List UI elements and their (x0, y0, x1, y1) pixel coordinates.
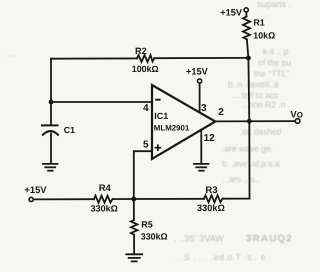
terminal +15V (bottom left) (29, 197, 33, 201)
svg-text:12: 12 (204, 133, 216, 144)
svg-text:MLM2901: MLM2901 (154, 124, 190, 133)
svg-text:2: 2 (218, 107, 224, 118)
svg-text:····: ···· (6, 51, 17, 60)
wire R2 right to junction (154, 57, 248, 59)
op-amp IC1 triangle (152, 85, 215, 159)
svg-text:k 4 .. p: k 4 .. p (263, 47, 289, 57)
svg-text:3RAUQ2: 3RAUQ2 (246, 234, 293, 245)
svg-text:R1: R1 (253, 17, 264, 27)
wire pin4 input from node A to op-amp (51, 101, 152, 103)
svg-text:10kΩ: 10kΩ (253, 30, 275, 40)
resistor R4 (94, 196, 113, 203)
svg-text:R4: R4 (99, 183, 112, 194)
wire R1 bottom through junctions down to R3 line (247, 39, 250, 198)
svg-text:330kΩ: 330kΩ (197, 203, 225, 213)
terminal Vo (295, 119, 300, 124)
svg-text:+15V: +15V (220, 7, 243, 17)
wire R2 top horizontal from left corner to R1 branch (51, 57, 137, 59)
svg-text:3: 3 (201, 103, 207, 114)
svg-text:R5: R5 (141, 220, 153, 230)
wire left vertical (R2 corner down to C1) (50, 59, 52, 125)
resistor R5 branch wire (133, 199, 135, 220)
ground (below C1) (43, 164, 58, 171)
svg-text:supans .: supans . (257, 0, 291, 9)
resistor R1 (243, 17, 250, 40)
resistor R3 (204, 195, 223, 202)
svg-text:. .ars .. s..: . .ars .. s.. (222, 174, 259, 184)
resistor R2 (137, 55, 154, 62)
svg-text:+15V: +15V (24, 184, 47, 195)
wire bottom rail left (33, 198, 94, 200)
svg-text:4: 4 (143, 103, 149, 114)
svg-text:.are wave ge.: .are wave ge. (222, 144, 273, 154)
wire R5 to ground (133, 235, 135, 254)
svg-text:IC1: IC1 (154, 111, 168, 121)
junction node: output/R3 branch (247, 119, 252, 124)
terminal +15V (top right) (244, 8, 248, 12)
op-amp plus sign (155, 144, 162, 151)
junction node: R2/R1 (246, 56, 251, 61)
capacitor C1 (42, 125, 58, 163)
wire output pin2 to Vo (215, 120, 295, 122)
wire pin12 V- down to ground (200, 130, 202, 164)
wire from +15V terminal to R1 (245, 12, 247, 16)
svg-text:5: 5 (143, 139, 149, 150)
svg-text:the "TTL": the "TTL" (254, 69, 289, 79)
terminal +15V (pin3) (198, 79, 202, 83)
svg-text:R3: R3 (205, 185, 217, 196)
svg-text:b..n .dentifi..ti: b..n .dentifi..ti (228, 80, 279, 90)
resistor R5 (131, 220, 138, 235)
wire pin3 V+ (199, 83, 201, 112)
svg-text:. ..3S' 3VAW: . ..3S' 3VAW (174, 234, 224, 244)
svg-text:R2: R2 (135, 46, 147, 56)
svg-text:.os dashed: .os dashed (240, 127, 282, 137)
svg-text:....ted to acc: ....ted to acc (232, 90, 279, 100)
junction node A: pin4/C1 (49, 100, 54, 105)
wire R4 to junction B and on to R3 (113, 198, 205, 200)
ground (pin 12) (194, 164, 209, 171)
wire R3 right to R1 branch (223, 198, 250, 200)
wire pin5 input down to junction B (134, 151, 152, 199)
svg-text:. .S . . . .ed.o.T .s.. e: . .S . . . .ed.o.T .s.. e (175, 252, 266, 262)
svg-text:of the pu: of the pu (258, 58, 291, 68)
svg-text:+15V: +15V (186, 66, 209, 76)
svg-text:b. .ave .id.p s.a: b. .ave .id.p s.a (222, 159, 280, 169)
svg-text:C1: C1 (64, 125, 75, 135)
op-amp minus sign (155, 99, 160, 101)
svg-text:330kΩ: 330kΩ (91, 204, 118, 214)
svg-text:O: O (297, 111, 303, 120)
svg-text:330kΩ: 330kΩ (141, 232, 168, 242)
svg-text:100kΩ: 100kΩ (132, 64, 159, 74)
junction node B: R4/R5/pin5 (131, 197, 136, 202)
ground (below R5) (126, 254, 142, 261)
